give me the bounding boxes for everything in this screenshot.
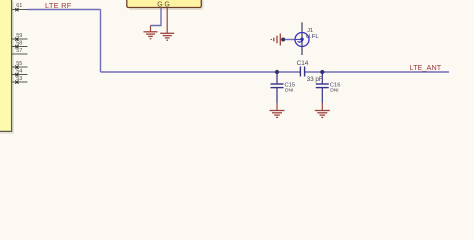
pin 58 [12, 41, 28, 47]
svg-text:DNI: DNI [330, 88, 338, 94]
svg-text:57: 57 [16, 48, 22, 54]
wire: vertical drop at x=100 [100, 10, 102, 73]
ground below C15 [270, 103, 285, 117]
svg-text:59: 59 [16, 33, 22, 39]
IC body U1 (LTE module, left edge, cropped) [0, 0, 14, 134]
pin 57 [12, 48, 28, 54]
capacitor C16 (shunt, DNI) [316, 72, 341, 103]
svg-text:LTE_ANT: LTE_ANT [410, 63, 442, 72]
no-ERC X on pin 59 [15, 38, 18, 41]
no-ERC X on pin 58 [15, 45, 18, 48]
no-ERC X on pin 53 [15, 81, 18, 84]
svg-text:53: 53 [16, 76, 22, 82]
no-ERC X on pin 54 [15, 73, 18, 76]
junction node A (C15 tap) [275, 70, 279, 74]
pin 59 [12, 33, 28, 39]
svg-text:33 pF: 33 pF [307, 76, 323, 83]
ground below C16 [315, 103, 330, 117]
connector J1 U.FL [295, 22, 319, 55]
sheet background [0, 0, 474, 143]
svg-text:61: 61 [16, 3, 22, 9]
svg-text:DNI: DNI [285, 88, 293, 94]
wire: left G pin down with jog [151, 8, 162, 26]
GND box (top, cropped) [127, 0, 204, 10]
no-ERC X on pin 61 [15, 8, 18, 11]
wire: pin61 to corner [28, 9, 101, 11]
svg-text:54: 54 [16, 69, 22, 75]
ground GND2 (below right G) [160, 33, 174, 40]
pin 54 [12, 69, 28, 75]
svg-text:U.FL: U.FL [306, 34, 319, 40]
junction node B (C16 tap) [320, 70, 324, 74]
capacitor C15 (shunt, DNI) [271, 72, 296, 103]
wire: bus right of C14 [305, 71, 449, 73]
svg-text:C14: C14 [297, 60, 309, 67]
ground shield (earth, rotated) [271, 34, 280, 46]
pin 61 [12, 3, 28, 9]
capacitor C14 (series) [297, 60, 323, 83]
svg-text:G: G [157, 1, 162, 8]
wire: shield to circle [281, 39, 295, 41]
svg-text:G: G [164, 1, 169, 8]
power stub: right G pin down [166, 8, 168, 33]
ground GND1 (below left G) [144, 26, 158, 39]
pin 55 [12, 61, 28, 67]
wire: main horizontal bus to LTE_ANT [101, 71, 301, 73]
pin 53 [12, 76, 28, 82]
no-ERC X on pin 55 [15, 66, 18, 69]
svg-text:58: 58 [16, 41, 22, 47]
svg-text:J1: J1 [307, 28, 313, 34]
svg-text:55: 55 [16, 61, 22, 67]
junction dot (shield) [281, 38, 285, 42]
